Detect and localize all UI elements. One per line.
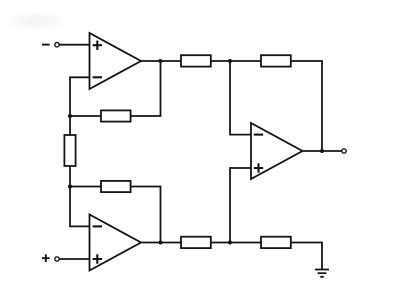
wire node to U3 noninverting input xyxy=(230,168,251,243)
input terminal IN- circle xyxy=(55,43,59,47)
wire U1 output rail xyxy=(141,60,181,62)
wire U2 output rail xyxy=(141,242,181,244)
node dot A xyxy=(68,114,72,118)
U3 plus pin label xyxy=(254,163,263,172)
wire R3 to R4 xyxy=(211,60,261,62)
U1 plus pin label xyxy=(93,41,102,51)
node dot B xyxy=(68,185,72,189)
wire node to U3 inverting input xyxy=(230,61,251,135)
resistor R2 lead left xyxy=(70,186,101,188)
node dot U1 output xyxy=(159,59,163,63)
wire node B to U2 inverting input xyxy=(70,187,90,227)
resistor R1 lead left xyxy=(70,115,101,117)
resistor R1 xyxy=(101,110,131,121)
wire R4 to feedback corner xyxy=(291,61,322,151)
U3 minus pin label xyxy=(254,134,263,136)
output terminal OUT circle xyxy=(342,149,346,153)
node dot U3 noninverting branch xyxy=(228,241,232,245)
wire RG to node B xyxy=(69,166,71,187)
wire U3 output xyxy=(303,150,342,152)
resistor R4 feedback xyxy=(261,55,291,66)
faint smudge top-left xyxy=(4,11,68,31)
U2 plus pin label xyxy=(93,254,102,263)
op-amp U1 xyxy=(90,33,142,89)
ground bar 3 xyxy=(320,276,324,278)
wire node A to RG xyxy=(69,116,71,135)
resistor RG gain xyxy=(64,135,75,166)
resistor R3 xyxy=(181,55,211,66)
resistor R5 xyxy=(181,237,211,248)
wire IN+ to U2 noninverting input xyxy=(59,258,89,260)
wire R5 to R6 xyxy=(211,242,261,244)
ground bar 2 xyxy=(318,272,327,274)
input terminal minus label xyxy=(42,44,50,46)
wire IN- to U1 noninverting input xyxy=(59,44,89,46)
U2 minus pin label xyxy=(93,225,102,227)
U1 minus pin label xyxy=(93,76,102,78)
ground bar 1 xyxy=(315,269,329,271)
node dot output feedback junction xyxy=(320,149,324,153)
resistor R2 xyxy=(101,181,131,192)
wire U1 inverting input xyxy=(70,77,90,116)
resistor R1 lead right / wire up to node xyxy=(131,61,161,116)
resistor R2 lead right / wire down to node xyxy=(131,187,161,243)
op-amp U3 xyxy=(251,123,303,179)
input terminal IN+ circle xyxy=(55,257,59,261)
node dot U2 output xyxy=(159,241,163,245)
resistor R6 to ground xyxy=(261,237,291,248)
input terminal plus label xyxy=(42,254,50,262)
wire R6 to ground drop xyxy=(291,243,322,270)
node dot U3 inverting branch xyxy=(228,59,232,63)
op-amp U2 xyxy=(90,215,142,271)
